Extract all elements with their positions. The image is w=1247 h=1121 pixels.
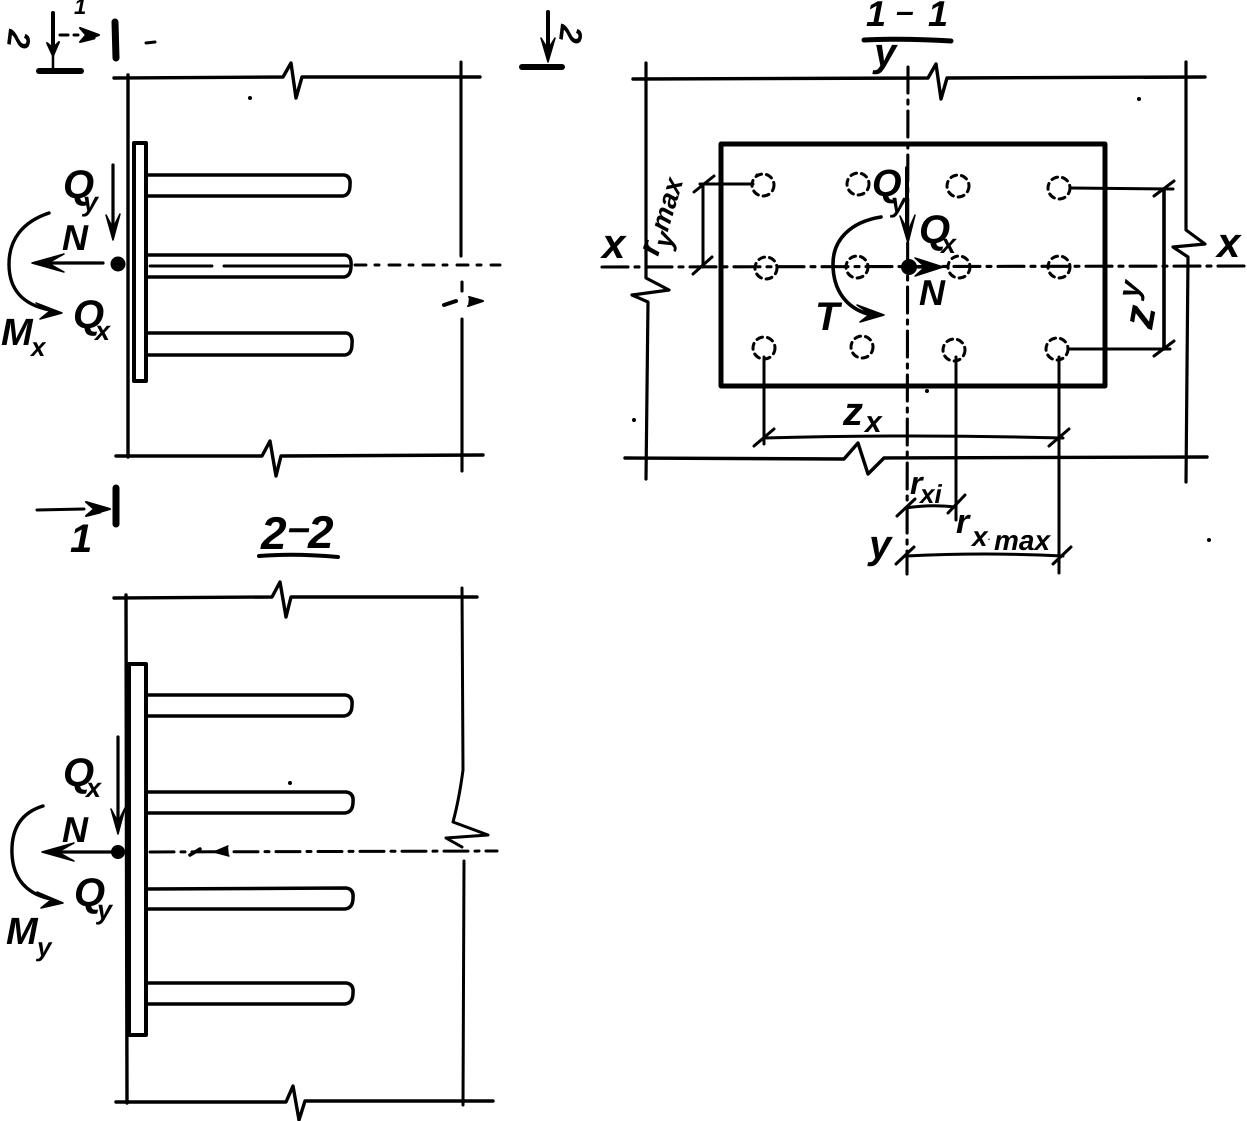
svg-text:y: y bbox=[35, 932, 53, 962]
figure B: bottom frame line with break bbox=[116, 1086, 493, 1120]
figure B: moment My arc bbox=[12, 806, 51, 899]
figure A: center axis dash-dot through middle bolt bbox=[150, 265, 348, 268]
figure C: bolt hole r2c4 bbox=[1048, 256, 1070, 278]
figure C: y axis bottom label bbox=[867, 523, 893, 567]
figure B: force Qx label bbox=[63, 751, 102, 803]
svg-text:y: y bbox=[95, 895, 114, 925]
figure B: force N arrow bbox=[54, 850, 112, 853]
section mark 2 top-left: cut tick bbox=[39, 68, 81, 74]
figure C: z_y extension line top bbox=[1070, 188, 1173, 189]
figure C: force Qx arrow bbox=[918, 265, 926, 268]
title 1-1 underline bbox=[864, 39, 951, 41]
figure A: small mark left of right vertical bbox=[444, 301, 456, 305]
figure C: z_y dimension line bbox=[1162, 189, 1166, 349]
figure C: torque T label bbox=[815, 295, 843, 339]
figure C: z_x label bbox=[842, 390, 883, 439]
figure C: r_xi tick right bbox=[948, 495, 965, 513]
figure C: bolt hole r3c4 bbox=[1046, 338, 1068, 360]
figure C: plate bbox=[721, 144, 1105, 386]
svg-text:1: 1 bbox=[866, 0, 886, 34]
figure C: z_y tick top bbox=[1154, 181, 1174, 196]
figure A: moment Mx label bbox=[1, 312, 47, 362]
figure A: force N arrow bbox=[44, 261, 103, 264]
svg-text:–: – bbox=[896, 0, 914, 29]
figure C: r_x,max label bbox=[956, 503, 1051, 556]
svg-text:x: x bbox=[970, 521, 989, 552]
figure B: right frame vertical upper with break bbox=[446, 588, 488, 847]
figure C: x axis label left bbox=[600, 220, 627, 267]
figure C: z_x extension line left bbox=[763, 357, 766, 444]
figure C: bolt hole r3c3 bbox=[943, 339, 965, 361]
section mark 2 middle: cut tick bbox=[522, 64, 562, 70]
svg-text:M: M bbox=[1, 312, 34, 354]
svg-text:T: T bbox=[815, 295, 843, 339]
figure B: right frame vertical lower bbox=[463, 861, 464, 1105]
figure B: bolt bar 3 bbox=[146, 888, 353, 909]
figure C: r_y,max tick bottom bbox=[693, 257, 712, 274]
figure B: bolt bar 4 bbox=[146, 983, 353, 1004]
figure C: r_y,max tick top bbox=[694, 176, 714, 192]
label y top bbox=[872, 31, 898, 75]
section mark 1 bottom: label 1 bbox=[70, 517, 92, 561]
figure B: bolt bar 2 bbox=[146, 792, 353, 813]
figure B: bolt bar 1 bbox=[146, 695, 352, 716]
figure A: force Qy arrow bbox=[111, 165, 114, 228]
svg-text:x: x bbox=[29, 332, 47, 362]
figure A: right frame vertical dash bbox=[460, 282, 463, 291]
svg-text:max: max bbox=[994, 525, 1051, 556]
figure B: center axis dash-dot bbox=[150, 851, 497, 852]
figure C: z_x extension line right (long) bbox=[1058, 357, 1061, 573]
svg-text:1: 1 bbox=[74, 0, 86, 19]
figure C: bolt hole r3c1 bbox=[753, 337, 775, 359]
section mark 1 top-left: label 1 bbox=[74, 0, 86, 19]
svg-text:z: z bbox=[842, 390, 863, 434]
svg-text:xi: xi bbox=[918, 479, 942, 509]
svg-text:x: x bbox=[939, 229, 957, 259]
svg-text:1: 1 bbox=[70, 517, 92, 561]
figure C: z_y extension line bottom bbox=[1068, 348, 1170, 351]
figure B: force Qy label bbox=[74, 871, 114, 925]
svg-text:y: y bbox=[81, 187, 100, 217]
svg-text:.: . bbox=[988, 532, 991, 542]
figure C: right frame vertical with break bbox=[1173, 62, 1205, 482]
figure C: left frame vertical with break bbox=[632, 63, 669, 479]
svg-text:r: r bbox=[956, 503, 971, 541]
figure C: bolt hole r1c3 bbox=[947, 175, 969, 197]
figure A: small arrow right of right vertical bbox=[468, 297, 483, 306]
svg-text:2: 2 bbox=[260, 507, 287, 559]
svg-text:2: 2 bbox=[307, 506, 334, 558]
figure B: top frame line with break bbox=[114, 582, 477, 617]
figure C: bolt hole r2c2 bbox=[846, 256, 868, 278]
section mark 2 top-left: label 2 bbox=[0, 27, 38, 50]
svg-text:N: N bbox=[62, 809, 89, 850]
svg-text:x: x bbox=[1215, 219, 1242, 266]
svg-text:1: 1 bbox=[928, 0, 948, 34]
title 2-2 underline bbox=[259, 555, 338, 557]
svg-text:x: x bbox=[93, 316, 111, 346]
section mark 1 bottom: cut tick bbox=[113, 488, 120, 524]
figure C: z_x tick left bbox=[754, 429, 774, 446]
figure A: right frame vertical lower bbox=[460, 319, 463, 471]
figure A: bolt bar 2 (middle) bbox=[146, 255, 351, 277]
figure C: load application dot bbox=[901, 259, 917, 275]
figure A: right frame vertical upper bbox=[459, 62, 462, 256]
figure C: x axis label right bbox=[1215, 219, 1242, 266]
stray mark near section 1 bbox=[146, 42, 155, 43]
figure C: r_y,max extension line bbox=[700, 183, 753, 186]
svg-text:N: N bbox=[62, 217, 89, 258]
figure C: bolt hole r1c4 bbox=[1048, 177, 1070, 199]
svg-text:y: y bbox=[872, 31, 898, 75]
figure C: r_x,max tick left bbox=[896, 547, 914, 564]
figure C: bolt hole r1c1 bbox=[752, 174, 774, 196]
figure A: force Qy label bbox=[63, 163, 100, 217]
section mark 1 top-left: cut tick bbox=[115, 22, 116, 58]
figure C: z_y tick bottom bbox=[1154, 341, 1174, 356]
figure C: force Qy label bbox=[872, 163, 908, 218]
figure A: force Qx label bbox=[73, 293, 111, 346]
figure A: moment Mx arc bbox=[9, 213, 50, 310]
figure A: bolt bar 1 bbox=[146, 175, 350, 196]
figure C: r_xi extension line bbox=[955, 357, 958, 520]
figure C: y axis dash-dot bbox=[907, 67, 908, 574]
figure C: bolt hole r2c3 bbox=[948, 256, 970, 278]
section mark 2 middle: label 2 bbox=[552, 22, 590, 45]
figure C: z_x dimension line bbox=[764, 436, 1063, 438]
figure C: bolt hole r1c2 bbox=[847, 173, 869, 195]
svg-text:x: x bbox=[600, 220, 627, 267]
section mark 2 top-left: down arrow bbox=[51, 13, 55, 48]
figure B: moment My label bbox=[6, 911, 53, 962]
figure C: r_y,max label (rotated) bbox=[630, 171, 697, 262]
figure C: bolt hole r2c1 bbox=[755, 257, 777, 279]
figure C: top frame line with break bbox=[633, 64, 1205, 99]
figure B: load application dot bbox=[111, 845, 125, 859]
figure B: small arrow marks on axis bbox=[190, 849, 200, 855]
figure A: force N label bbox=[62, 217, 89, 258]
svg-text:M: M bbox=[6, 911, 39, 953]
figure C: z_y label (rotated) bbox=[1112, 277, 1166, 333]
figure C: bolt hole r3c2 bbox=[851, 336, 873, 358]
figure C: r_x,max tick right bbox=[1053, 547, 1071, 564]
scan specks bbox=[248, 96, 1211, 785]
figure C: r_xi tick left bbox=[897, 499, 915, 516]
figure A: bolt bar 3 bbox=[146, 333, 352, 355]
figure A: left frame vertical bbox=[126, 75, 129, 457]
figure C: torque T arc bbox=[833, 217, 881, 314]
figure B: force Qx arrow bbox=[116, 737, 119, 820]
figure A: bottom frame line with break bbox=[116, 441, 483, 476]
figure B: plate bbox=[129, 664, 146, 1035]
figure A: top frame line with break bbox=[114, 63, 480, 98]
figure C: force Qy arrow bbox=[905, 168, 909, 230]
section mark 1 top-left: dashed arrow bbox=[60, 34, 78, 37]
title 2-2 bbox=[260, 506, 334, 559]
figure C: r_xi dimension line bbox=[906, 506, 956, 508]
svg-text:x: x bbox=[863, 406, 883, 439]
figure C: r_y,max dimension line bbox=[702, 184, 705, 267]
svg-text:N: N bbox=[919, 272, 946, 313]
figure C: bottom frame line with break bbox=[625, 443, 1207, 474]
svg-text:–: – bbox=[288, 506, 310, 550]
figure C: r_x,max dimension line bbox=[906, 554, 1063, 556]
figure C: r_xi label bbox=[910, 465, 942, 509]
figure C: z_x tick right bbox=[1049, 429, 1069, 446]
section mark 1 bottom: arrow bbox=[37, 509, 84, 510]
section mark 2 middle: down arrow bbox=[546, 12, 550, 48]
figure B: left frame vertical bbox=[126, 595, 127, 1103]
figure C: force Qx label bbox=[919, 208, 957, 259]
title 1-1 bbox=[866, 0, 948, 34]
figure A: load application dot bbox=[111, 257, 126, 272]
figure A: plate bbox=[134, 143, 146, 381]
figure B: force N label bbox=[62, 809, 89, 850]
figure C: x axis dash-dot bbox=[602, 266, 1247, 267]
svg-text:y: y bbox=[867, 523, 893, 567]
figure C: force N label bbox=[919, 272, 946, 313]
svg-text:x: x bbox=[84, 773, 102, 803]
